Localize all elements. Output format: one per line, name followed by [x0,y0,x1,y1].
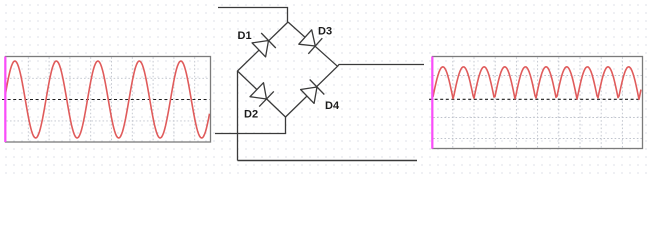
scope SC1 border [6,57,211,143]
wire: left node down to bottom rail [237,71,239,161]
scope SC1 left edge marker [4,57,6,143]
scope SC2 (output rectified display) [429,57,643,149]
wire: bottom rail [238,160,418,162]
scope SC1 (input sine display) [2,57,211,143]
wire: top AC input to bridge top node [218,8,288,23]
wire: scope SC1 to bottom node [215,117,286,134]
scope SC2 grid [433,57,642,148]
wire: right node to scope SC2 [338,65,425,67]
scope SC2 axis (zero line) [429,98,642,100]
diode D2 (left node to bottom node) [250,83,274,107]
svg-text:D4: D4 [325,100,340,112]
scope SC1 grid [6,57,210,141]
scope SC1 axis (zero line) [2,99,210,101]
svg-text:D2: D2 [244,109,258,121]
scope SC2 left edge marker [431,57,433,149]
scope SC2 border [433,57,643,149]
diode D3 (top node to right node) [299,30,323,54]
wire: bridge diamond edges [238,22,338,117]
svg-text:D1: D1 [238,30,252,42]
scope SC1 waveform (sine) [6,61,210,138]
diode D1 (left node to top node) [252,33,276,57]
scope SC2 waveform (rectified sine) [433,67,641,100]
diode D4 (bottom node to right node) [301,80,325,104]
svg-text:D3: D3 [318,26,332,38]
